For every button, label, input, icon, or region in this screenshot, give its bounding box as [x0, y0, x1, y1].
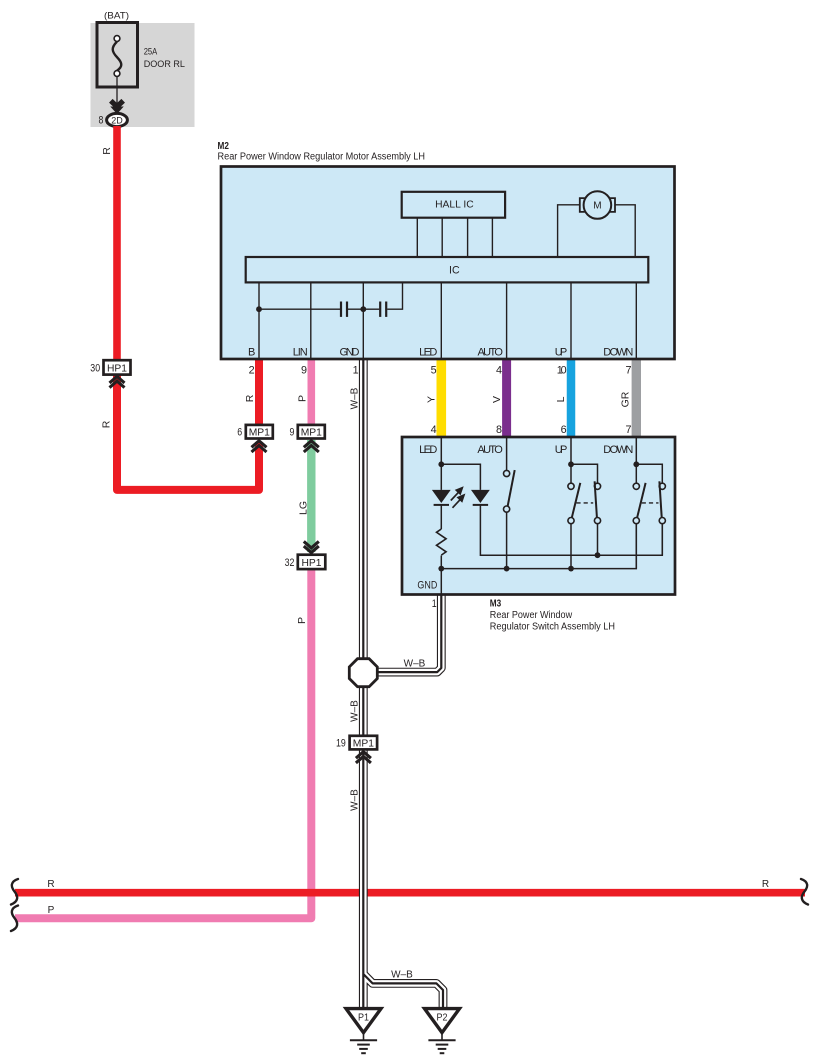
AUTO switch: [504, 437, 515, 569]
svg-text:Y: Y: [426, 396, 438, 403]
svg-text:DOOR RL: DOOR RL: [144, 59, 185, 70]
wire LG between MP1 and HP1: [307, 440, 315, 552]
svg-text:W–B: W–B: [391, 970, 413, 981]
svg-text:P: P: [297, 395, 309, 402]
svg-text:HP1: HP1: [107, 364, 127, 375]
octagon junction: [349, 659, 377, 687]
svg-text:1: 1: [353, 365, 359, 377]
wire fuse to connector 2D: [116, 76, 118, 103]
continuation squiggle R left: [11, 879, 18, 905]
wire W-B main: M2 pin 1 GND down through octagon junction to ground P1, branch to P2, branch from M3 pin 1: [363, 358, 443, 1008]
M2 Rear Power Window Regulator Motor Assembly LH box: [221, 167, 675, 360]
svg-text:LED: LED: [419, 444, 437, 456]
svg-text:7: 7: [625, 424, 631, 436]
arrowhead into 2D: [111, 101, 123, 107]
fuse block background (junction block): [91, 23, 195, 127]
svg-text:32: 32: [285, 557, 295, 569]
M3 pin name labels: [419, 444, 633, 456]
svg-text:LED: LED: [419, 347, 437, 359]
svg-text:1: 1: [432, 598, 437, 610]
wire V: M2 pin 4 AUTO to M3 pin 8: [502, 358, 511, 439]
svg-text:W–B: W–B: [350, 387, 361, 409]
M3 pin numbers above box: [431, 424, 632, 436]
wire R main bus horizontal: [15, 889, 805, 897]
svg-text:4: 4: [431, 424, 437, 436]
svg-text:UP: UP: [555, 347, 568, 359]
svg-text:MP1: MP1: [353, 739, 374, 750]
svg-text:6: 6: [561, 424, 567, 436]
M3 Rear Power Window Regulator Switch Assembly LH box: [402, 437, 675, 595]
svg-text:P2: P2: [437, 1013, 448, 1024]
wire L: M2 pin 10 UP to M3 pin 6: [567, 358, 576, 439]
svg-text:P: P: [296, 617, 308, 624]
svg-text:DOWN: DOWN: [603, 347, 633, 359]
svg-text:MP1: MP1: [301, 428, 322, 439]
svg-text:W–B: W–B: [404, 659, 426, 670]
LED emission arrows: [451, 488, 464, 508]
motor M leads: [558, 205, 636, 257]
svg-text:IC: IC: [449, 265, 460, 277]
svg-text:AUTO: AUTO: [478, 347, 504, 359]
LED D1 (emitting): [432, 490, 451, 505]
svg-text:9: 9: [290, 427, 295, 439]
DOWN switch: [633, 437, 665, 569]
svg-text:LG: LG: [298, 501, 310, 515]
svg-text:R: R: [101, 420, 113, 428]
svg-text:Rear Power Window Regulator Mo: Rear Power Window Regulator Motor Assemb…: [218, 151, 426, 162]
M2 pin numbers: [249, 365, 632, 377]
svg-text:10: 10: [557, 365, 567, 377]
svg-text:W–B: W–B: [350, 700, 361, 722]
svg-text:MP1: MP1: [249, 428, 270, 439]
node dot GND/cap: [360, 306, 366, 312]
node dot diode2 net: [595, 552, 601, 558]
svg-text:GND: GND: [417, 579, 437, 591]
svg-text:M: M: [593, 201, 601, 212]
continuation squiggle P left: [11, 906, 18, 932]
wire GR: M2 pin 7 DOWN to M3 pin 7: [632, 358, 641, 439]
resistor: [437, 529, 447, 555]
capacitor C1: [341, 302, 347, 317]
wire P long: HP1 32 down, crossing R bus, elbow left: [15, 568, 311, 918]
node dot LED branch: [438, 461, 444, 467]
svg-text:19: 19: [336, 738, 346, 750]
svg-text:UP: UP: [555, 444, 568, 456]
svg-text:R: R: [762, 879, 769, 890]
svg-text:30: 30: [90, 363, 100, 375]
node dot B/cap: [256, 306, 262, 312]
GND net line in M3: [441, 523, 636, 568]
svg-text:GND: GND: [340, 347, 360, 359]
svg-text:R: R: [244, 394, 256, 402]
IC output columns to pins: [259, 282, 636, 358]
svg-text:M2: M2: [218, 141, 229, 152]
svg-text:4: 4: [496, 365, 502, 377]
svg-text:9: 9: [301, 365, 307, 377]
node dot DOWN branch: [633, 461, 639, 467]
node dot UP branch: [568, 461, 574, 467]
svg-text:DOWN: DOWN: [603, 444, 633, 456]
svg-text:Rear Power Window: Rear Power Window: [490, 610, 573, 621]
svg-text:P: P: [48, 905, 55, 916]
connector 32 HP1: [285, 541, 326, 569]
svg-text:HP1: HP1: [301, 558, 321, 569]
svg-text:L: L: [555, 396, 567, 402]
svg-text:8: 8: [99, 115, 104, 127]
wire R: HP1 down, elbow right, up to MP1 pin 6: [117, 374, 259, 490]
connector 9 MP1: [290, 425, 325, 452]
capacitor C2: [380, 302, 386, 317]
svg-text:AUTO: AUTO: [477, 444, 503, 456]
wire R stub: M2 pin 2 (B) to connector MP1: [255, 358, 263, 426]
svg-text:B: B: [248, 347, 255, 359]
svg-text:6: 6: [237, 427, 242, 439]
wire P stub: M2 pin 9 (LIN) to connector MP1: [307, 358, 315, 426]
svg-text:(BAT): (BAT): [104, 11, 129, 22]
svg-text:2: 2: [249, 365, 255, 377]
svg-text:Regulator Switch Assembly LH: Regulator Switch Assembly LH: [490, 621, 615, 632]
svg-text:V: V: [491, 396, 503, 403]
ground P2: [425, 1009, 460, 1054]
svg-text:LIN: LIN: [293, 347, 308, 359]
svg-text:W–B: W–B: [350, 789, 361, 811]
wire branch to second diode, down and across to DOWN right pole: [441, 464, 662, 555]
svg-text:5: 5: [431, 365, 437, 377]
connector oval 2D pin 8: [107, 113, 128, 126]
connector 30 HP1: [90, 360, 130, 387]
continuation squiggle R right: [801, 879, 808, 905]
capacitor row between B and GND columns: [259, 282, 403, 309]
motor M1: [580, 191, 615, 219]
svg-text:25A: 25A: [144, 47, 158, 58]
svg-text:8: 8: [496, 424, 502, 436]
svg-text:P1: P1: [358, 1013, 369, 1024]
diode D2: [471, 490, 490, 505]
svg-text:7: 7: [625, 365, 631, 377]
fuse 25A DOOR RL: [97, 23, 138, 88]
IC block: [246, 257, 649, 282]
wire R battery feed: 2D down to HP1: [113, 126, 121, 362]
UP switch: [568, 437, 601, 569]
svg-text:2D: 2D: [111, 116, 123, 127]
wire Y: M2 pin 5 LED to M3 pin 4: [436, 358, 446, 439]
ground P1: [346, 1009, 381, 1054]
wires HALL IC to IC: [417, 218, 492, 257]
HALL IC block: [402, 192, 505, 218]
svg-text:GR: GR: [620, 391, 632, 407]
LED column wire: [440, 437, 442, 594]
node dots GND net: [438, 566, 444, 572]
svg-text:R: R: [101, 147, 113, 155]
svg-text:HALL IC: HALL IC: [435, 199, 474, 210]
svg-text:M3: M3: [490, 598, 502, 609]
svg-text:R: R: [47, 879, 54, 890]
connector 19 MP1: [336, 736, 377, 763]
connector 6 MP1: [237, 425, 272, 452]
M2 pin name labels: [248, 347, 633, 359]
